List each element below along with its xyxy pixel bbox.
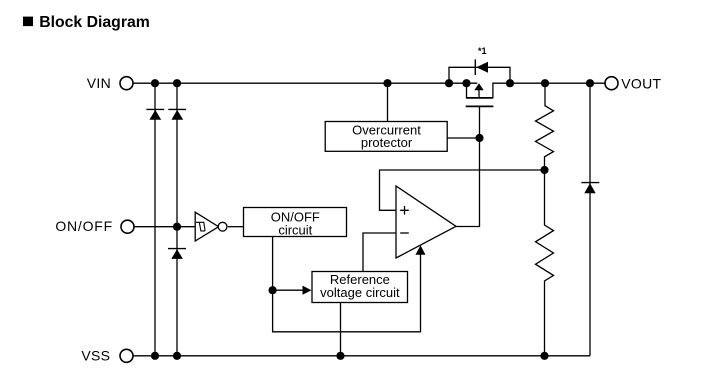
node dot VSS rail B bbox=[173, 352, 181, 360]
svg-text:circuit: circuit bbox=[278, 223, 312, 238]
svg-text:voltage circuit: voltage circuit bbox=[320, 285, 400, 300]
node dot divider top bbox=[541, 79, 549, 87]
transistor Q1 channel bar bbox=[466, 97, 493, 99]
op-amp plus sign bbox=[400, 206, 409, 215]
wire VIN rail (drain section to VOUT terminal) bbox=[493, 83, 605, 98]
svg-text:VOUT: VOUT bbox=[621, 75, 661, 91]
wire ON/OFF input bbox=[135, 226, 196, 228]
op-amp U2 error amplifier bbox=[396, 186, 456, 258]
svg-text:VIN: VIN bbox=[87, 75, 111, 91]
node dot VSS reference bbox=[336, 352, 344, 360]
wire VSS rail bbox=[134, 355, 591, 357]
node dot VSS rail A bbox=[151, 352, 159, 360]
wire feedback to op-amp plus input bbox=[380, 170, 545, 210]
svg-text:VSS: VSS bbox=[81, 348, 110, 364]
schmitt trigger inverter U1 triangle bbox=[195, 212, 218, 241]
terminal VOUT bbox=[605, 77, 618, 90]
wire ON/OFF circuit to bias node bbox=[272, 237, 274, 291]
wire schmitt output to ON/OFF circuit bbox=[228, 226, 244, 228]
wire left vertical rail B (VIN to VSS) bbox=[176, 83, 178, 356]
node dot bypass left bbox=[445, 79, 453, 87]
wire op-amp output to gate bbox=[456, 106, 480, 226]
node dot gate bbox=[475, 134, 483, 142]
svg-text:*1: *1 bbox=[478, 46, 487, 56]
transistor Q1 bulk arrow tail bbox=[478, 90, 480, 98]
wire overcurrent protector tap bbox=[387, 83, 389, 121]
node dot feedback bbox=[540, 166, 548, 174]
wire bypass diode loop bbox=[449, 67, 510, 83]
terminal VSS bbox=[120, 349, 133, 362]
op-amp minus sign bbox=[400, 232, 409, 234]
schmitt trigger hysteresis glyph bbox=[196, 222, 205, 231]
diode *1 parasitic diode bar bbox=[474, 59, 476, 75]
node dot ON/OFF rail bbox=[173, 223, 181, 231]
diode D2 (rail B ESD upper) bbox=[168, 109, 186, 119]
box ON/OFF circuit bbox=[244, 208, 347, 237]
diode *1 parasitic diode triangle bbox=[476, 62, 488, 73]
node dot bypass right bbox=[506, 79, 514, 87]
node dot bias bbox=[269, 286, 277, 294]
node dot clamp top bbox=[586, 79, 594, 87]
node dot source bbox=[462, 79, 470, 87]
svg-text:Block Diagram: Block Diagram bbox=[39, 14, 150, 31]
wire reference box to VSS bbox=[340, 303, 342, 356]
diode D4 (VOUT clamp) bbox=[581, 183, 599, 194]
wire left vertical rail A (VIN to VSS) bbox=[154, 83, 156, 356]
wire bias node arrow to reference box bbox=[273, 289, 303, 291]
wire op-amp minus input to reference bbox=[363, 233, 396, 272]
transistor Q1 gate plate bbox=[466, 105, 494, 107]
diode D1 (rail A ESD) bbox=[146, 109, 164, 119]
node dot VIN rail A bbox=[151, 79, 159, 87]
box overcurrent protector bbox=[325, 122, 447, 152]
svg-text:ON/OFF: ON/OFF bbox=[55, 218, 113, 234]
arrow into reference box bbox=[303, 286, 312, 295]
arrow bias into op-amp bbox=[416, 245, 426, 255]
schmitt trigger output bubble bbox=[218, 222, 227, 231]
terminal VIN bbox=[120, 77, 133, 90]
wire resistor divider branch bbox=[536, 83, 554, 356]
transistor Q1 pass PMOS source leg bbox=[466, 83, 468, 98]
title square bullet bbox=[23, 17, 33, 27]
node dot VSS divider bbox=[540, 352, 548, 360]
wire VOUT clamp diode branch bbox=[589, 83, 591, 356]
wire VIN rail (left section to pass transistor source) bbox=[134, 82, 478, 84]
svg-text:protector: protector bbox=[361, 135, 413, 150]
wire bias to op-amp bbox=[273, 254, 421, 331]
wire overcurrent protector output bbox=[447, 137, 479, 139]
diode D3 (ON/OFF rail ESD lower) bbox=[168, 249, 186, 259]
node dot overcurrent tap bbox=[383, 79, 391, 87]
terminal ON/OFF bbox=[121, 220, 134, 233]
box reference voltage circuit bbox=[312, 272, 408, 303]
node dot VIN rail B bbox=[173, 79, 181, 87]
transistor Q1 bulk arrow head bbox=[474, 83, 483, 90]
